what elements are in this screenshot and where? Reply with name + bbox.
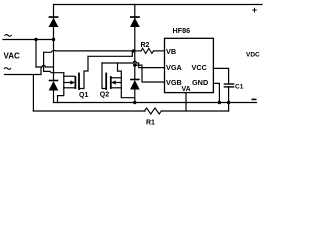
svg-text:VB: VB [166,47,176,56]
svg-text:VCC: VCC [192,63,208,72]
svg-text:VGA: VGA [166,63,183,72]
svg-text:HF86: HF86 [173,26,191,35]
svg-text:+: + [252,5,257,15]
svg-text:VDC: VDC [246,52,260,59]
svg-text:Q1: Q1 [79,92,88,99]
svg-text:VAC: VAC [4,52,21,61]
svg-text:Q2: Q2 [100,92,109,99]
svg-text:VGB: VGB [166,78,182,87]
svg-text:VA: VA [182,86,191,93]
svg-text:GND: GND [192,78,208,87]
svg-text:R1: R1 [146,120,155,127]
svg-text:R2: R2 [141,42,150,49]
svg-text:C1: C1 [235,84,244,91]
